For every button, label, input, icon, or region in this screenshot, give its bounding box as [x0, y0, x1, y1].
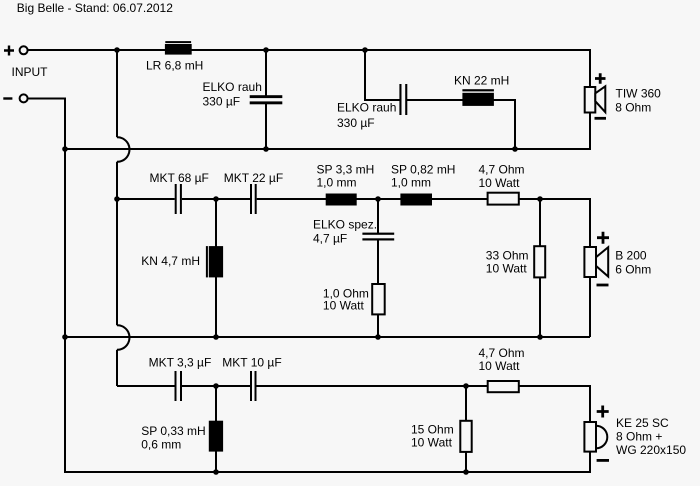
wire hop over midrange return rail	[117, 325, 130, 350]
svg-text:6 Ohm: 6 Ohm	[615, 262, 651, 276]
speaker B 200	[584, 232, 609, 285]
capacitor MKT 10 uF	[250, 371, 257, 401]
svg-text:15 Ohm: 15 Ohm	[411, 422, 454, 436]
svg-text:10 Watt: 10 Watt	[486, 261, 528, 275]
capacitor ELKO rauh 330 uF (first)	[250, 95, 283, 104]
wire plus bus to tweeter rail	[116, 350, 118, 386]
resistor 1,0 Ohm 10 Watt	[372, 284, 385, 314]
svg-text:1,0 mm: 1,0 mm	[317, 175, 357, 189]
svg-text:KN 22 mH: KN 22 mH	[454, 74, 509, 88]
wire SP 0,33 mH branch	[215, 386, 217, 472]
wire ELKO rauh 330uF branch upper	[265, 50, 267, 97]
inductor LR 6,8 mH	[165, 41, 192, 55]
wire top rail from plus terminal to woofer	[28, 50, 590, 87]
wire ELKO spez branch upper	[377, 199, 379, 233]
wire 15 Ohm branch	[465, 386, 467, 472]
svg-text:10 Watt: 10 Watt	[479, 359, 521, 373]
svg-text:SP 3,3 mH: SP 3,3 mH	[317, 163, 375, 177]
wire tweeter rail	[117, 386, 590, 422]
svg-text:330 µF: 330 µF	[337, 116, 375, 130]
wire B200 to midrange return rail	[589, 277, 591, 337]
wire from ELKO to KN 22 mH and down	[406, 100, 515, 149]
svg-text:10 Watt: 10 Watt	[479, 176, 521, 190]
input plus terminal	[4, 46, 28, 56]
node bottom rail / 15 Ohm branch	[463, 469, 469, 475]
capacitor ELKO rauh 330 uF (second)	[399, 84, 407, 115]
svg-text:WG 220x150: WG 220x150	[616, 443, 686, 457]
svg-text:ELKO rauh: ELKO rauh	[337, 101, 396, 115]
resistor 4,7 Ohm 10 Watt (tweeter)	[488, 381, 519, 392]
svg-text:MKT 22 µF: MKT 22 µF	[224, 171, 283, 185]
capacitor MKT 68 uF	[175, 184, 182, 214]
capacitor MKT 3,3 uF	[175, 371, 183, 401]
node 1,0 Ohm branch / midrange return	[375, 334, 381, 340]
speaker KE 25 SC	[584, 406, 609, 461]
svg-text:Big Belle - Stand: 06.07.2012: Big Belle - Stand: 06.07.2012	[17, 1, 173, 15]
inductor SP 3,3 mH	[326, 194, 357, 206]
svg-text:1,0 mm: 1,0 mm	[391, 175, 431, 189]
svg-text:KN 4,7 mH: KN 4,7 mH	[141, 254, 200, 268]
capacitor MKT 22 uF	[250, 184, 257, 214]
wire 33 Ohm branch	[539, 199, 541, 337]
inductor SP 0,33 mH	[209, 421, 223, 452]
wire woofer return rail	[65, 113, 590, 150]
svg-text:KE 25 SC: KE 25 SC	[616, 416, 669, 430]
svg-text:ELKO rauh: ELKO rauh	[203, 80, 262, 94]
node midrange rail / 33 Ohm branch	[537, 196, 543, 202]
svg-text:MKT 3,3 µF: MKT 3,3 µF	[149, 356, 212, 370]
svg-text:MKT 10 µF: MKT 10 µF	[222, 356, 281, 370]
wire minus bus and bottom rail	[28, 99, 590, 473]
svg-text:4,7 µF: 4,7 µF	[313, 231, 347, 245]
node top rail / second ELKO branch	[362, 47, 368, 53]
svg-text:TIW 360: TIW 360	[616, 86, 662, 100]
node plus bus / midrange rail	[114, 196, 120, 202]
wire midrange return rail	[65, 336, 590, 338]
wire plus bus to midrange rail	[116, 162, 118, 325]
svg-text:330 µF: 330 µF	[203, 94, 241, 108]
svg-text:8 Ohm +: 8 Ohm +	[616, 430, 662, 444]
node minus bus / midrange return	[62, 334, 68, 340]
resistor 15 Ohm 10 Watt	[460, 421, 471, 452]
svg-text:LR 6,8 mH: LR 6,8 mH	[146, 59, 203, 73]
svg-text:4,7 Ohm: 4,7 Ohm	[479, 163, 525, 177]
wire ELKO spez branch lower through 1,0 Ohm	[377, 240, 379, 337]
node top rail / plus bus	[114, 47, 120, 53]
speaker TIW 360	[585, 73, 606, 118]
svg-text:10 Watt: 10 Watt	[411, 436, 453, 450]
svg-text:SP 0,33 mH: SP 0,33 mH	[141, 424, 205, 438]
node ELKO branch / woofer return	[263, 146, 269, 152]
wire second ELKO branch from top rail	[365, 50, 400, 100]
wire midrange top rail	[117, 199, 590, 247]
node KN22 branch / woofer return	[512, 146, 518, 152]
svg-text:B 200: B 200	[615, 248, 647, 262]
node tweeter rail / 15 Ohm branch	[463, 383, 469, 389]
wire KN 4,7 mH branch	[215, 199, 217, 337]
wire plus bus vertical	[116, 50, 118, 137]
node midrange rail / KN 4,7 branch	[213, 196, 219, 202]
svg-text:0,6 mm: 0,6 mm	[141, 438, 181, 452]
svg-text:10 Watt: 10 Watt	[323, 299, 365, 313]
node minus bus / woofer return	[62, 146, 68, 152]
svg-text:MKT 68 µF: MKT 68 µF	[150, 171, 209, 185]
node top rail / ELKO branch	[263, 47, 269, 53]
node tweeter rail / SP 0,33 branch	[213, 383, 219, 389]
inductor KN 4,7 mH	[206, 246, 223, 277]
resistor 33 Ohm 10 Watt	[534, 246, 545, 277]
node bottom rail / SP 0,33 branch	[213, 469, 219, 475]
node midrange rail / ELKO spez branch	[375, 196, 381, 202]
wire ELKO rauh 330uF branch lower	[265, 102, 267, 149]
node 33 Ohm branch / midrange return	[537, 334, 543, 340]
wire hop over woofer return rail	[117, 137, 130, 162]
svg-text:SP 0,82 mH: SP 0,82 mH	[391, 163, 455, 177]
svg-text:8 Ohm: 8 Ohm	[615, 100, 651, 114]
inductor SP 0,82 mH	[400, 194, 432, 206]
node KN 4,7 branch / midrange return	[213, 334, 219, 340]
svg-text:4,7 Ohm: 4,7 Ohm	[479, 346, 525, 360]
inductor KN 22 mH	[462, 89, 494, 106]
svg-text:ELKO spez.: ELKO spez.	[313, 218, 377, 232]
input minus terminal	[3, 94, 27, 102]
svg-text:INPUT: INPUT	[12, 65, 49, 79]
resistor 4,7 Ohm 10 Watt (midrange)	[488, 193, 519, 205]
capacitor ELKO spez 4,7 uF	[362, 233, 394, 241]
